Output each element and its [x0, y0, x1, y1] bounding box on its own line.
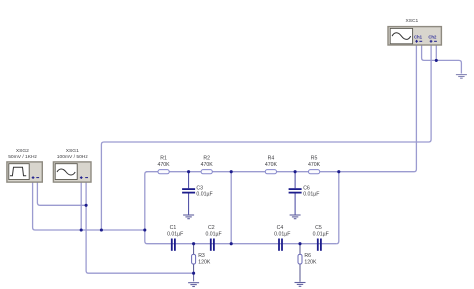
- node: junction R3 bottom with return wire: [192, 272, 195, 275]
- node: junction C4 C5 R6: [298, 242, 301, 245]
- node: junction Ch2 minus on ground wire: [435, 59, 438, 62]
- svg-text:0.01µF: 0.01µF: [205, 231, 221, 237]
- wire: scope Ch2 minus down to ground wire: [435, 45, 437, 60]
- svg-text:Ch2: Ch2: [428, 34, 437, 39]
- node: junction R1 R2 C3: [187, 170, 190, 173]
- wire: scope Ch2 plus long wire down, left across, down to bus: [101, 45, 431, 230]
- wire: scope Ch1 plus down to output row: [339, 45, 417, 172]
- svg-text:120K: 120K: [304, 259, 317, 265]
- svg-text:100mV / 50Hz: 100mV / 50Hz: [57, 154, 89, 160]
- capacitor C1 0.01uF: [167, 225, 183, 251]
- ground at scope minus terminals: [456, 75, 467, 79]
- svg-text:0.01µF: 0.01µF: [274, 231, 290, 237]
- svg-text:XSC1: XSC1: [406, 18, 419, 24]
- resistor R1 470K: [158, 156, 171, 174]
- svg-text:R2: R2: [203, 156, 210, 162]
- capacitor C2 0.01uF: [205, 225, 221, 251]
- svg-text:470K: 470K: [158, 162, 171, 168]
- node: junction R4 R5 C6: [294, 170, 297, 173]
- capacitor C4 0.01uF: [274, 225, 290, 251]
- wire: top row through R1 R2: [146, 171, 231, 173]
- capacitor C6 0.01uF with lead and ground: [289, 172, 320, 215]
- resistor R6 120K vertical with leads: [298, 244, 317, 282]
- ground under C6: [290, 215, 301, 219]
- function generator XSG2: [7, 148, 42, 182]
- ground under C3: [183, 215, 194, 219]
- node: junction XSG2 minus joins XSG1 minus: [85, 204, 88, 207]
- svg-text:R4: R4: [268, 156, 275, 162]
- svg-text:C2: C2: [208, 225, 215, 231]
- node: junction R5 output to scope: [337, 170, 340, 173]
- svg-text:470K: 470K: [308, 162, 321, 168]
- svg-text:R1: R1: [160, 156, 167, 162]
- wire: XSG2 minus terminal down then right to XSG1 minus: [37, 182, 86, 205]
- wire: output node vertical link: [336, 172, 339, 244]
- node: junction C1 C2 R3: [192, 242, 195, 245]
- node: junction bus to input node wire: [143, 228, 146, 231]
- capacitor C5 0.01uF: [313, 225, 329, 251]
- node: junction scope Ch2 wire on bus: [100, 228, 103, 231]
- svg-text:R6: R6: [304, 253, 311, 259]
- capacitor C3 0.01uF with lead and ground: [182, 172, 213, 215]
- resistor R4 470K: [265, 156, 278, 174]
- ground under R6: [295, 283, 306, 287]
- svg-text:470K: 470K: [265, 162, 278, 168]
- oscilloscope XSC1: [388, 18, 441, 45]
- svg-text:C1: C1: [170, 225, 177, 231]
- node: junction XSG1 plus on bus: [80, 228, 83, 231]
- resistor R3 120K vertical with leads: [192, 244, 211, 274]
- node: junction C2 C4 mid link bottom: [230, 242, 233, 245]
- svg-text:0.01µF: 0.01µF: [313, 231, 329, 237]
- wire: input node vertical linking top row and bottom row: [145, 172, 171, 244]
- svg-text:0.01µF: 0.01µF: [303, 191, 319, 197]
- wire: XSG1 plus terminal down to bus: [80, 182, 82, 230]
- svg-text:Ch1: Ch1: [414, 34, 423, 39]
- svg-text:470K: 470K: [201, 162, 214, 168]
- svg-text:0.01µF: 0.01µF: [196, 191, 212, 197]
- wire: R3 bottom node to ground: [193, 273, 195, 281]
- wire: top row through R4 R5 to output: [231, 171, 339, 173]
- wire: bottom row stage2 caps: [231, 243, 336, 245]
- svg-text:50mV / 1KHz: 50mV / 1KHz: [8, 154, 37, 160]
- wire: XSG2 plus terminal down and right along bus to input node: [33, 182, 145, 230]
- resistor R2 470K: [201, 156, 214, 174]
- wire: XSG1 minus terminal down then right to ground node of R3: [86, 182, 194, 273]
- svg-text:R3: R3: [198, 253, 205, 259]
- svg-text:0.01µF: 0.01µF: [167, 231, 183, 237]
- resistor R5 470K: [308, 156, 321, 174]
- svg-text:C5: C5: [315, 225, 322, 231]
- svg-text:R5: R5: [311, 156, 318, 162]
- wire: mid node vertical link: [230, 172, 232, 244]
- wire: scope Ch1 minus down then right to scope ground: [422, 45, 462, 74]
- wire: bottom row stage1 caps: [171, 243, 231, 245]
- ground under R3: [188, 283, 199, 287]
- node: junction R2 R4 mid link top: [230, 170, 233, 173]
- svg-text:XSG2: XSG2: [16, 148, 29, 154]
- function generator XSG1: [53, 148, 91, 182]
- svg-text:C4: C4: [277, 225, 284, 231]
- svg-text:XSG1: XSG1: [66, 148, 79, 154]
- svg-text:120K: 120K: [198, 259, 211, 265]
